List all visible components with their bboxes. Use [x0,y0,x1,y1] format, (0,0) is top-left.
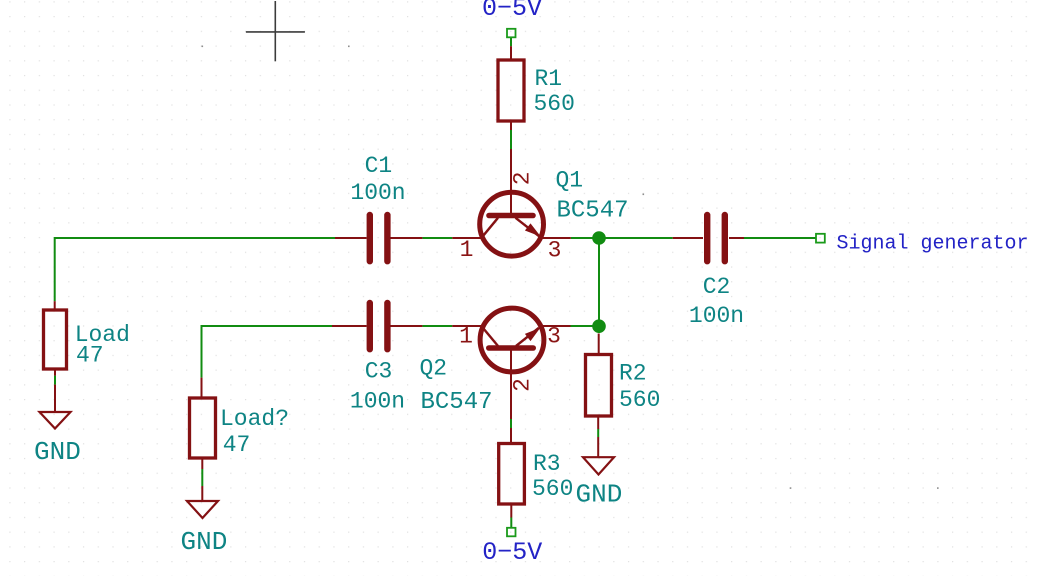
resistor R1 body [498,60,524,121]
svg-text:C3: C3 [365,359,393,385]
svg-text:R3: R3 [533,451,561,477]
wire Load? GND stem [201,486,203,501]
wire R2 bottom pin [597,416,599,429]
capacitor C3 left plate [367,300,373,353]
wire R1 top pin [510,46,512,60]
wire R3 bottom stub [510,518,512,529]
resistor R3 body [499,444,525,505]
node A junction dot [592,231,606,245]
svg-text:BC547: BC547 [421,389,493,416]
wire Q1 pin2 stub [510,149,512,214]
transistor Q1 emitter stroke [516,218,540,236]
resistor R2 body [586,355,612,417]
coarse grid dark dots [202,46,939,489]
transistor Q1 emitter arrow [525,223,541,236]
wire Q2 pin2 to R3 pin [510,428,512,444]
wire Load GND stem [54,385,56,412]
svg-text:Q2: Q2 [420,356,448,382]
node B junction dot [592,319,606,333]
transistor Q2 emitter stroke [516,328,539,346]
resistor Load [44,310,130,369]
wire Q1 pin1 stub [452,237,484,239]
transistor Q1 [460,167,629,263]
wire top net row: left corner to C1 left pin [55,237,335,239]
wire C3 left pin [332,325,367,327]
transistor Q2 body circle [480,308,544,372]
wire R3 bottom pin [510,504,512,518]
svg-text:GND: GND [181,527,228,557]
wire R2 bottom to GND [597,429,599,437]
svg-text:R1: R1 [535,66,563,92]
wire C2 right to Signal generator square [744,237,816,239]
wire Load? corner to C3 left pin [202,325,333,327]
wire Q2 pin3 to node B [571,325,600,327]
wire Load? bottom pin [201,458,203,469]
resistor Load? [190,398,290,458]
wire Load bottom to GND [54,376,56,385]
wire left vertical drop to Load [54,237,56,301]
capacitor C3 right plate [384,300,390,353]
svg-text:R2: R2 [619,361,647,387]
ground (Load) [34,412,81,467]
svg-text:Signal generator: Signal generator [837,233,1029,256]
svg-text:GND: GND [34,437,81,467]
svg-text:560: 560 [534,91,575,117]
capacitor C2 left plate [704,212,710,265]
svg-text:47: 47 [76,343,104,369]
wire vertical bus x=599 from node A to node B [598,238,600,333]
wire Load bottom pin [54,369,56,376]
unconnected end square (top power) [507,29,516,38]
ground triangle (Load) [40,412,71,429]
transistor Q1 body circle [480,192,544,256]
svg-text:C2: C2 [703,274,731,300]
transistor Q2 collector stroke [482,326,499,346]
wire C3 right pin [391,325,423,327]
wire Load? bottom to GND [201,469,203,486]
svg-text:GND: GND [576,480,623,510]
wire Q2 pin3 stub [540,325,571,327]
wire stub top power to R1 [510,37,512,47]
svg-text:BC547: BC547 [557,198,629,225]
unconnected end square (bottom power) [507,528,516,537]
capacitor C1 [350,153,405,264]
wire C2 left pin [673,237,703,239]
svg-text:0−5V: 0−5V [482,0,542,23]
resistor Load? body [190,398,216,458]
svg-text:47: 47 [223,432,251,458]
transistor Q2 base bar [489,345,533,351]
resistor Load body [44,310,67,369]
svg-text:100n: 100n [350,388,405,414]
ground (R2) [576,457,623,509]
wire R1 bottom pin [510,121,512,130]
transistor Q1 collector stroke [482,218,499,238]
svg-text:3: 3 [548,238,562,264]
svg-text:2: 2 [510,171,536,185]
wire C3 right to Q2 pin1 [422,325,452,327]
wire Load top pin [54,301,56,310]
capacitor C2 right plate [722,212,728,265]
wire node A to R2 pin [598,334,600,355]
resistor R3 [499,444,574,505]
wire Q1 pin3 stub [540,237,571,239]
wire Q2 pin2 to R3 [510,419,512,428]
capacitor C2 [689,212,744,329]
ground triangle (R2) [583,457,614,474]
svg-text:100n: 100n [689,303,744,329]
ground triangle (Load?) [187,501,218,518]
wire R1 bottom to Q1 pin2 [510,130,512,149]
capacitor C3 [350,300,405,415]
resistor R1 [498,60,575,121]
wire C1 right pin [391,237,423,239]
svg-text:Load?: Load? [220,406,289,432]
transistor Q2 emitter arrow [525,328,540,341]
wire C1 left pin [335,237,367,239]
svg-text:2: 2 [510,378,536,392]
cursor crosshair [246,1,305,61]
svg-text:0−5V: 0−5V [482,538,542,567]
resistor R2 [586,355,661,417]
svg-text:560: 560 [532,476,573,502]
wire Load? vertical drop [201,325,203,378]
unconnected end square (signal generator) [816,234,825,243]
wire R2 GND stem [597,437,599,457]
svg-text:560: 560 [619,387,660,413]
capacitor C1 right plate [384,212,390,265]
svg-text:Q1: Q1 [556,167,584,193]
wire Q1 pin3 to C2 left pin (through junction) [571,237,673,239]
capacitor C1 left plate [367,212,373,265]
wire Q2 pin1 stub [452,325,484,327]
transistor Q1 base bar [489,213,533,219]
svg-text:1: 1 [460,237,474,263]
wire Load? top pin [201,378,203,398]
svg-text:100n: 100n [350,180,405,206]
transistor Q2 [420,308,561,416]
wire C1 right to Q1 pin1 [422,237,452,239]
svg-text:C1: C1 [365,153,393,179]
wire C2 right pin [729,237,744,239]
svg-text:3: 3 [547,324,561,350]
wire Q2 pin2 stub [510,350,512,419]
ground (Load?) [181,501,228,557]
svg-text:1: 1 [459,324,473,350]
